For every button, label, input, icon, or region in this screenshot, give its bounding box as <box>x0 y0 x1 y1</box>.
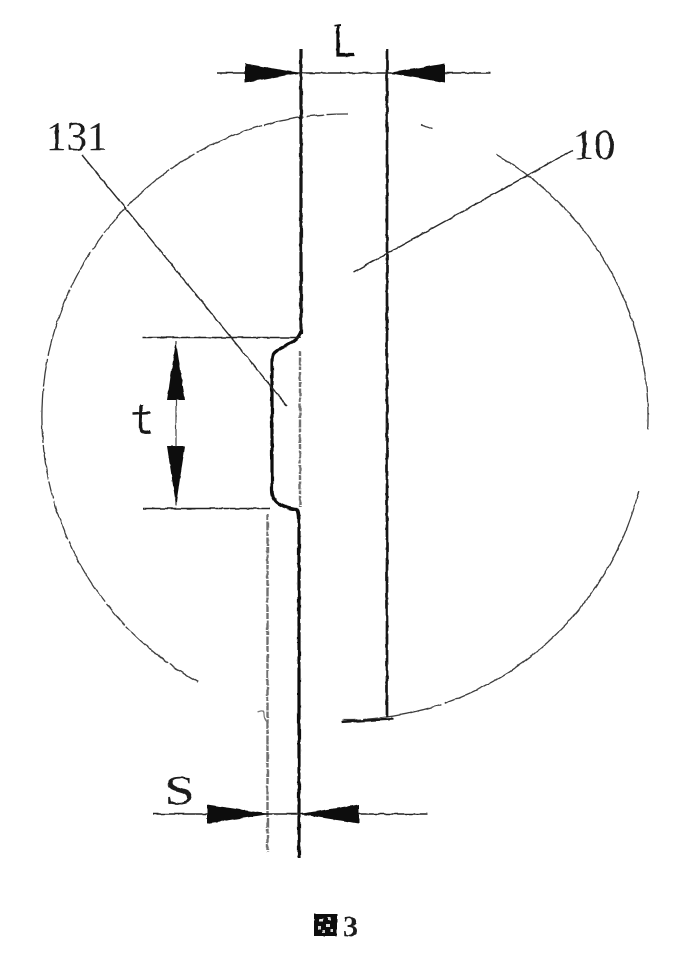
svg-text:131: 131 <box>46 113 108 159</box>
svg-text:3: 3 <box>343 910 358 943</box>
svg-text:S: S <box>165 768 195 813</box>
svg-text:10: 10 <box>573 123 615 169</box>
